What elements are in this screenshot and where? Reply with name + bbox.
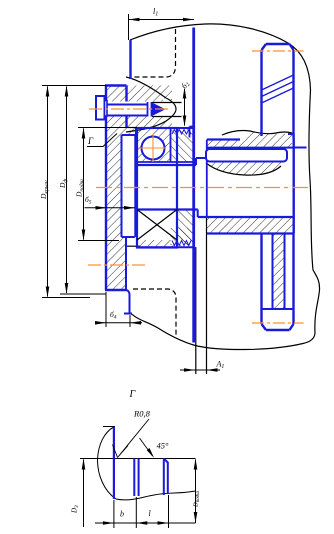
web left face: [272, 234, 274, 310]
bearing cover hatched section: [96, 86, 172, 291]
zigzag washer top: [172, 130, 191, 135]
dim Df line: [66, 87, 68, 294]
hidden pocket bottom (dashed): [133, 289, 176, 338]
detail bottom dim line: [95, 522, 196, 524]
detail shoulder top edge: [103, 426, 115, 428]
bearing ring face line: [170, 128, 172, 162]
svg-text:R0,8: R0,8: [133, 409, 151, 419]
pitch line top tooth: [252, 50, 304, 52]
ball crosshair: [140, 134, 166, 162]
lower bolt axis centerline: [88, 264, 145, 266]
gear rim left face: [260, 50, 262, 324]
detail chamfer slant: [164, 459, 168, 463]
dim b2: [184, 89, 186, 126]
housing wall face: [192, 28, 195, 343]
hub top edge right: [288, 134, 294, 138]
keyway local-section boundary: [206, 163, 281, 175]
ball relief (white circle): [142, 137, 165, 160]
pitch line bottom tooth: [252, 322, 304, 324]
keyway slot top: [206, 147, 293, 149]
svg-text:b: b: [120, 510, 124, 519]
HATCH-AREAS: [96, 86, 294, 310]
shaft step down: [197, 210, 199, 218]
gear rim right face: [292, 50, 294, 324]
bearing roller cross: [137, 210, 177, 241]
ext line bottom D2: [60, 293, 106, 295]
dim b4: [96, 322, 142, 324]
cover top edge: [105, 84, 127, 86]
bolt boss end contour: [166, 98, 176, 121]
ext line Dpodsh top: [78, 127, 137, 129]
bearing top edge to wall: [177, 127, 193, 129]
svg-text:Г: Г: [129, 389, 136, 400]
dim Dpodsh detail: [195, 460, 197, 524]
ORANGE: [88, 51, 312, 323]
svg-text:45°: 45°: [157, 441, 170, 451]
shaft top edge: [137, 164, 196, 166]
tooth top: [262, 44, 294, 50]
helix marks: [262, 75, 294, 103]
web right face: [284, 234, 286, 310]
housing bore edge left bottom: [127, 245, 141, 247]
detail top surface line: [80, 458, 196, 460]
bearing bottom edge to wall: [137, 246, 193, 248]
hub bore bottom: [198, 216, 294, 218]
spacer ring upper hatch: [171, 128, 193, 162]
rim inner bottom edge: [262, 308, 294, 310]
spacer ring lower hatch: [177, 210, 193, 247]
dim A1: [180, 369, 220, 371]
detail chamfer edge: [163, 459, 165, 496]
bolt head: [96, 96, 105, 120]
dim D3: [83, 460, 85, 528]
ledge right of hub: [294, 147, 307, 149]
DETAIL: [71, 389, 201, 528]
hub right face: [293, 138, 295, 234]
housing front edge top: [129, 40, 131, 79]
hub bottom edge: [207, 232, 294, 234]
bolt boss upper contour: [126, 77, 166, 98]
detail bottom break line: [116, 491, 196, 500]
bolt cone tip: [152, 103, 166, 117]
HOUSING: [126, 24, 320, 374]
bolt axis centerline: [89, 108, 168, 110]
BLUEPARTS: [96, 28, 307, 343]
shaft step up: [196, 158, 207, 165]
detail ext lines: [114, 495, 169, 528]
hidden pocket top (dashed): [133, 29, 176, 77]
DIMS: [39, 7, 224, 372]
cover spigot bottom: [124, 290, 132, 314]
tooth bottom: [262, 324, 294, 330]
detail groove walls: [134, 459, 138, 497]
hub left face: [206, 140, 208, 218]
bolt boss lower contour: [126, 121, 166, 132]
leader R0.8 with open arrow: [113, 419, 150, 458]
leader 45: [140, 438, 153, 456]
housing bore edge left top: [127, 127, 138, 129]
cover left face: [105, 86, 107, 291]
boss pocket whiteout: [163, 99, 176, 121]
cover right face upper: [125, 86, 127, 129]
bearing outer box: [137, 128, 177, 248]
dim Dkrysh line: [47, 87, 49, 297]
bolt washer: [105, 101, 108, 117]
bolt hole lines: [152, 103, 182, 117]
ball: [142, 137, 165, 160]
shaft axis centerline: [96, 187, 312, 189]
housing outer contour: [129, 24, 320, 350]
dim b5: [85, 207, 136, 209]
detail left break line: [98, 427, 117, 500]
bolt thread boundary: [148, 102, 152, 117]
gear web hatch: [273, 234, 285, 310]
dim l1 line: [129, 19, 195, 21]
key: [206, 149, 287, 162]
gear hub upper band hatch: [207, 132, 292, 148]
bolt shank: [107, 105, 148, 116]
cover recess: [122, 128, 137, 290]
ext line bottom D1: [42, 297, 90, 299]
shaft bottom edge: [137, 208, 198, 210]
housing wall inner edge: [206, 217, 208, 374]
spacer ring tab: [190, 127, 193, 138]
zigzag washer bottom: [172, 241, 191, 246]
dim Dpodsh line: [83, 129, 85, 240]
bearing outer/inner ring upper hatch: [137, 128, 171, 162]
cover bottom edge: [105, 289, 127, 291]
keyway local-section hatch: [206, 162, 283, 176]
arrows bottom dims: [103, 521, 114, 525]
ext l1 left: [128, 14, 130, 40]
gear hub lower band hatch: [206, 217, 294, 234]
hub top wavy boundary: [222, 131, 292, 136]
ext line Dpodsh bottom: [78, 240, 119, 242]
hub top edge: [207, 138, 240, 140]
detail end face: [167, 462, 169, 494]
svg-text:Г: Г: [87, 136, 94, 146]
ext line top left: [42, 85, 106, 87]
bearing ring line upper: [137, 161, 193, 163]
housing wall edge lower: [195, 247, 197, 374]
detail shoulder face: [113, 427, 115, 500]
bearing lower ring hatch: [137, 240, 177, 248]
